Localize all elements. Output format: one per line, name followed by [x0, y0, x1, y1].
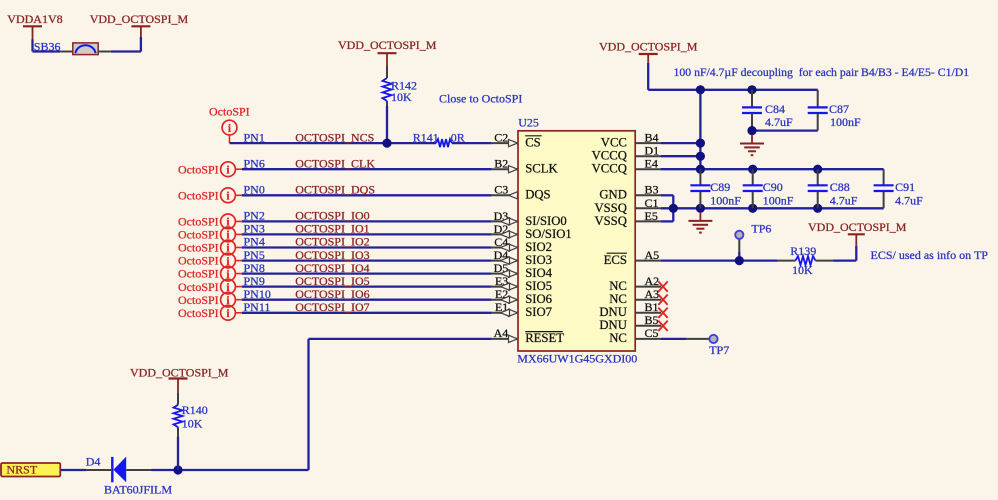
svg-text:VDD_OCTOSPI_M: VDD_OCTOSPI_M: [808, 220, 907, 234]
svg-text:VDD_OCTOSPI_M: VDD_OCTOSPI_M: [130, 365, 229, 379]
svg-text:C90: C90: [763, 180, 783, 194]
svg-text:OctoSPI: OctoSPI: [178, 254, 219, 268]
svg-text:PN8: PN8: [244, 261, 265, 275]
svg-text:i: i: [226, 191, 230, 203]
svg-text:OCTOSPI_IO3: OCTOSPI_IO3: [295, 248, 369, 262]
svg-text:PN0: PN0: [244, 183, 265, 197]
svg-text:VSSQ: VSSQ: [594, 214, 626, 228]
svg-text:DNU: DNU: [599, 305, 627, 319]
svg-text:4.7uF: 4.7uF: [765, 115, 793, 129]
svg-text:10K: 10K: [391, 90, 412, 104]
svg-text:PN5: PN5: [244, 248, 265, 262]
svg-text:SIO4: SIO4: [525, 266, 552, 280]
svg-text:ECS/ used as info on TP: ECS/ used as info on TP: [871, 248, 989, 262]
svg-text:PN4: PN4: [244, 235, 265, 249]
svg-text:SCLK: SCLK: [525, 162, 558, 176]
svg-text:NC: NC: [609, 331, 627, 345]
svg-text:OctoSPI: OctoSPI: [178, 306, 219, 320]
svg-text:SIO7: SIO7: [525, 305, 552, 319]
svg-text:10K: 10K: [792, 263, 813, 277]
svg-text:VDDA1V8: VDDA1V8: [7, 12, 62, 26]
svg-text:i: i: [226, 164, 230, 176]
svg-text:OctoSPI: OctoSPI: [178, 228, 219, 242]
svg-text:10K: 10K: [182, 416, 203, 430]
svg-text:i: i: [228, 123, 232, 135]
svg-text:VCCQ: VCCQ: [592, 162, 627, 176]
svg-text:OCTOSPI_DQS: OCTOSPI_DQS: [295, 183, 375, 197]
svg-text:SIO5: SIO5: [525, 279, 552, 293]
svg-text:4.7uF: 4.7uF: [895, 193, 923, 207]
svg-text:C91: C91: [895, 180, 915, 194]
svg-text:ECS: ECS: [604, 253, 627, 267]
svg-text:PN10: PN10: [244, 287, 271, 301]
svg-text:SIO6: SIO6: [525, 292, 552, 306]
svg-text:4.7uF: 4.7uF: [830, 193, 858, 207]
svg-text:OctoSPI: OctoSPI: [178, 267, 219, 281]
svg-text:100nF: 100nF: [710, 193, 741, 207]
svg-text:SB36: SB36: [34, 40, 61, 54]
svg-text:PN11: PN11: [244, 300, 271, 314]
svg-text:DQS: DQS: [525, 188, 550, 202]
svg-text:R139: R139: [790, 244, 816, 258]
svg-text:OCTOSPI_IO0: OCTOSPI_IO0: [295, 209, 369, 223]
svg-text:100nF: 100nF: [763, 193, 794, 207]
svg-text:OctoSPI: OctoSPI: [178, 280, 219, 294]
svg-text:OctoSPI: OctoSPI: [178, 215, 219, 229]
svg-text:VCC: VCC: [601, 136, 627, 150]
svg-text:OctoSPI: OctoSPI: [178, 241, 219, 255]
svg-text:SIO2: SIO2: [525, 240, 552, 254]
svg-text:PN3: PN3: [244, 222, 265, 236]
svg-text:VDD_OCTOSPI_M: VDD_OCTOSPI_M: [599, 40, 698, 54]
svg-text:OctoSPI: OctoSPI: [209, 104, 250, 118]
svg-text:Close to OctoSPI: Close to OctoSPI: [439, 91, 522, 105]
svg-text:OCTOSPI_IO7: OCTOSPI_IO7: [295, 300, 369, 314]
svg-text:OctoSPI: OctoSPI: [178, 188, 219, 202]
svg-text:i: i: [226, 308, 230, 320]
svg-text:U25: U25: [518, 116, 539, 130]
svg-text:OCTOSPI_IO4: OCTOSPI_IO4: [295, 261, 369, 275]
svg-text:GND: GND: [599, 188, 627, 202]
svg-text:0R: 0R: [451, 130, 465, 144]
svg-text:MX66UW1G45GXDI00: MX66UW1G45GXDI00: [517, 351, 637, 365]
svg-text:OctoSPI: OctoSPI: [178, 293, 219, 307]
svg-text:R141: R141: [413, 130, 439, 144]
svg-text:PN6: PN6: [244, 156, 265, 170]
svg-text:C84: C84: [765, 102, 785, 116]
svg-text:100nF: 100nF: [830, 115, 861, 129]
svg-text:CS: CS: [525, 136, 541, 150]
svg-text:NRST: NRST: [7, 463, 38, 477]
svg-text:VCCQ: VCCQ: [592, 149, 627, 163]
svg-text:SIO3: SIO3: [525, 253, 552, 267]
svg-text:OCTOSPI_CLK: OCTOSPI_CLK: [295, 156, 375, 170]
svg-text:PN9: PN9: [244, 274, 265, 288]
svg-text:VSSQ: VSSQ: [594, 201, 626, 215]
svg-text:TP6: TP6: [751, 221, 771, 235]
svg-text:SI/SIO0: SI/SIO0: [525, 214, 567, 228]
svg-text:C88: C88: [830, 180, 850, 194]
svg-text:R140: R140: [182, 403, 208, 417]
svg-text:PN2: PN2: [244, 209, 265, 223]
svg-text:OCTOSPI_IO2: OCTOSPI_IO2: [295, 235, 369, 249]
svg-text:BAT60JFILM: BAT60JFILM: [104, 482, 172, 496]
svg-text:OCTOSPI_IO6: OCTOSPI_IO6: [295, 287, 369, 301]
svg-text:TP7: TP7: [709, 343, 729, 357]
svg-text:NC: NC: [609, 279, 627, 293]
svg-text:OCTOSPI_NCS: OCTOSPI_NCS: [295, 130, 374, 144]
svg-text:OCTOSPI_IO1: OCTOSPI_IO1: [295, 222, 369, 236]
svg-text:C89: C89: [710, 180, 730, 194]
svg-text:VDD_OCTOSPI_M: VDD_OCTOSPI_M: [90, 12, 189, 26]
svg-text:RESET: RESET: [525, 331, 564, 345]
svg-text:PN1: PN1: [244, 130, 265, 144]
svg-text:NC: NC: [609, 292, 627, 306]
svg-text:VDD_OCTOSPI_M: VDD_OCTOSPI_M: [338, 38, 437, 52]
svg-text:OctoSPI: OctoSPI: [178, 162, 219, 176]
svg-text:SO/SIO1: SO/SIO1: [525, 227, 572, 241]
svg-text:D4: D4: [86, 455, 101, 469]
svg-text:100 nF/4.7µF decoupling for e: 100 nF/4.7µF decoupling for each pair B4…: [674, 66, 970, 79]
svg-text:DNU: DNU: [599, 318, 627, 332]
svg-text:OCTOSPI_IO5: OCTOSPI_IO5: [295, 274, 369, 288]
svg-text:C87: C87: [829, 102, 849, 116]
